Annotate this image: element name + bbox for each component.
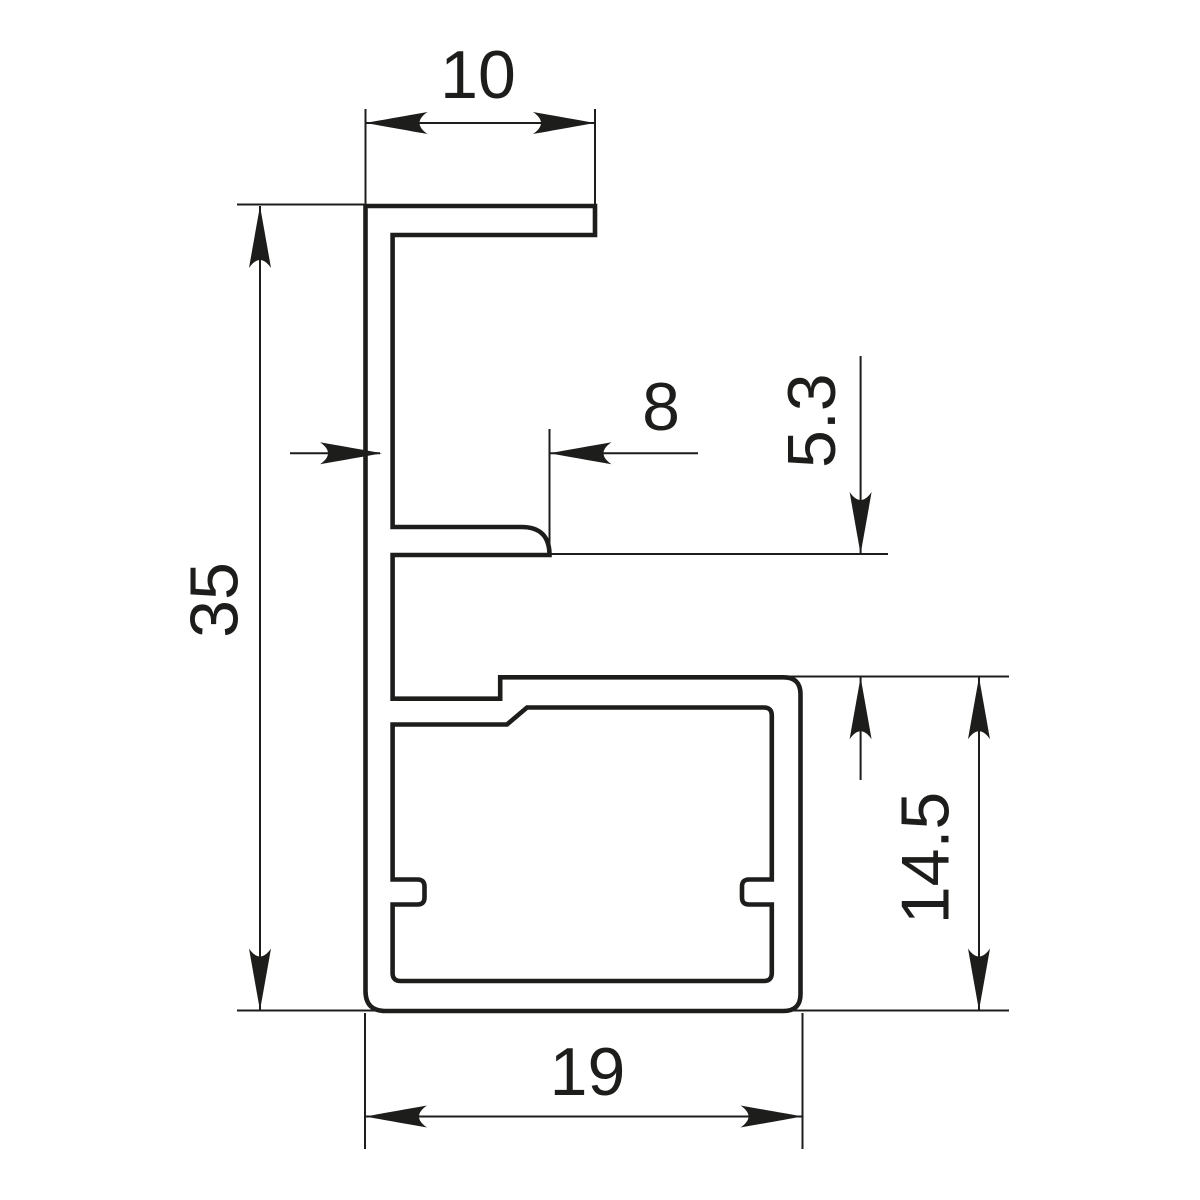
dimension 8 [290,429,698,553]
svg-text:14.5: 14.5 [888,792,964,924]
dimension 19 [365,1013,803,1149]
profile inner cavity [393,708,772,982]
dimension 5.3 [550,356,889,780]
svg-text:35: 35 [177,562,253,638]
profile outer outline [366,206,801,1011]
svg-text:19: 19 [550,1034,626,1110]
svg-text:5.3: 5.3 [774,373,850,468]
svg-text:8: 8 [642,369,680,445]
svg-text:10: 10 [440,37,516,113]
dimension 10 [366,109,596,204]
dimension 35 [237,205,1009,1011]
dimension 14.5 [789,677,1009,1011]
